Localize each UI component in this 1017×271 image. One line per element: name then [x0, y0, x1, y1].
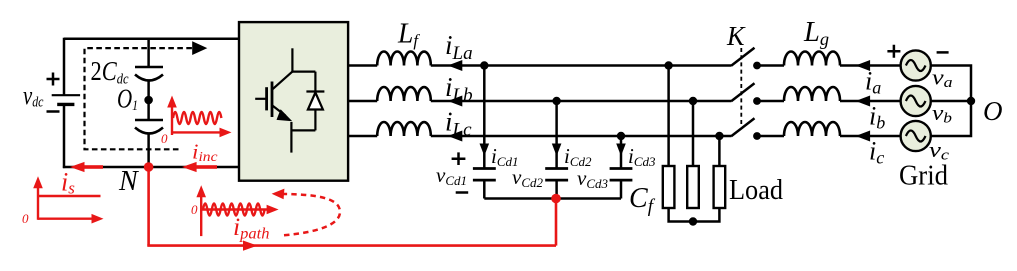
label source minus: [937, 51, 949, 54]
capacitor Cd1: [473, 169, 496, 181]
resistor R2: [687, 166, 699, 208]
wire: load bottom bus: [669, 208, 720, 222]
graph is dc level line: [38, 195, 101, 197]
wire: between split capacitors: [147, 81, 150, 121]
wire: DC bus top: [64, 38, 239, 41]
red arrow on bottom path: [243, 241, 258, 251]
inductor Lg phase b: [784, 87, 840, 101]
svg-text:Lg: Lg: [803, 17, 829, 49]
wire: capacitor bus: [484, 197, 621, 200]
wire: midpoint branch upper: [147, 38, 150, 67]
current arrow iCd1: [480, 144, 490, 157]
wire: capacitor branch 1: [483, 66, 486, 169]
label battery minus: [47, 110, 60, 113]
red current arrow on dc bottom right: [182, 162, 217, 172]
current arrow iCd2: [552, 144, 562, 157]
svg-text:K: K: [726, 21, 746, 51]
node N red: [144, 162, 154, 172]
svg-text:iLb: iLb: [445, 72, 473, 106]
dashed circulating-current loop: [85, 48, 194, 149]
red dashed return curve: [282, 194, 340, 235]
svg-text:iinc: iinc: [192, 140, 218, 166]
wire: branch 1 lower stub: [483, 180, 486, 198]
node load star point: [689, 217, 697, 225]
svg-text:iCd3: iCd3: [628, 144, 656, 169]
resistor R1: [663, 166, 675, 208]
svg-text:is: is: [61, 168, 75, 198]
wire: phase c switch to Lg: [757, 135, 784, 138]
inductor Lf phase c: [377, 122, 431, 136]
switch contact node b: [753, 97, 761, 105]
switch contact node a: [753, 62, 761, 70]
svg-text:Cf: Cf: [629, 183, 656, 217]
node phase a load tap: [664, 61, 672, 69]
red dashed curve arrowhead: [272, 189, 285, 200]
label vCd1 plus: [452, 152, 466, 165]
svg-text:Grid: Grid: [899, 161, 948, 192]
current arrow ia: [856, 60, 871, 71]
svg-text:vCd3: vCd3: [577, 166, 608, 191]
node bus red: [551, 194, 561, 204]
wire: load leg c: [718, 136, 721, 166]
svg-text:iLa: iLa: [445, 30, 473, 64]
node phase c branch3: [617, 132, 625, 140]
wire: below lower capacitor: [147, 134, 150, 168]
wire: phase c Lg to source: [840, 135, 901, 138]
svg-text:0: 0: [22, 211, 29, 226]
wire: phase c filter to switch: [431, 135, 731, 138]
svg-text:ia: ia: [865, 67, 881, 98]
current arrow ib: [856, 96, 871, 107]
capacitor Cd3: [610, 169, 633, 181]
wire: IGBT top rail: [292, 70, 315, 72]
capacitor 2Cdc lower: [135, 120, 163, 134]
wire: phase a Lg to source: [840, 64, 901, 67]
wire: branch 2 lower stub: [555, 180, 558, 198]
battery Vdc: [52, 95, 80, 104]
wire: DC left upper: [63, 38, 66, 95]
current arrow iLc: [448, 131, 463, 142]
wire: phase a filter to switch: [431, 64, 731, 67]
wire: IGBT bottom rail: [291, 129, 315, 131]
red current arrow on dc bottom left: [70, 162, 103, 172]
svg-text:iLc: iLc: [445, 107, 472, 141]
inverter U1: [239, 22, 348, 181]
current arrow iLa: [448, 60, 463, 71]
capacitor 2Cdc upper: [135, 67, 163, 81]
red wire N down: [147, 167, 150, 246]
svg-text:vCd1: vCd1: [436, 163, 467, 188]
graph is axes red: [38, 182, 96, 220]
wire: phase a inverter to filter: [348, 64, 377, 67]
wire: phase b Lg to source: [840, 100, 901, 103]
svg-text:0: 0: [161, 131, 168, 146]
source Va: [901, 50, 931, 80]
current arrow iLb: [448, 96, 463, 107]
inductor Lg phase a: [784, 52, 840, 66]
resistor R3: [714, 166, 726, 208]
wire: load leg a: [667, 66, 670, 167]
label battery plus: [47, 73, 60, 86]
transistor Q1 IGBT: [255, 48, 292, 152]
graph iinc axis arrowheads: [167, 96, 231, 138]
node phase b branch2: [552, 97, 560, 105]
inductor Lg phase c: [784, 122, 840, 136]
svg-text:Load: Load: [729, 175, 783, 206]
node phase b load tap: [689, 97, 697, 105]
switch K blade a: [731, 48, 755, 66]
svg-text:ipath: ipath: [233, 214, 270, 243]
svg-text:vCd2: vCd2: [512, 165, 543, 190]
switch K gang link dashed: [740, 48, 742, 126]
wire: load leg b: [692, 101, 695, 166]
red wire up to bus: [555, 199, 558, 246]
svg-text:vdc: vdc: [23, 81, 44, 111]
graph ipath axes red: [201, 192, 271, 236]
label vCd1 minus: [456, 191, 469, 194]
inductor Lf phase a: [377, 52, 431, 66]
current arrow iCd3: [616, 144, 626, 157]
capacitor Cd2: [545, 169, 568, 181]
node phase a branch1: [480, 61, 488, 69]
wire: phase b inverter to filter: [348, 100, 377, 103]
graph iinc ripple wave: [173, 112, 221, 124]
wire: capacitor branch 3: [620, 136, 623, 168]
wire: phase a switch to Lg: [757, 64, 784, 67]
wire: grid neutral bus: [931, 66, 971, 137]
current arrow ic: [856, 131, 871, 142]
svg-text:vb: vb: [932, 100, 953, 127]
switch K blade b: [731, 83, 755, 101]
node O: [967, 97, 975, 105]
svg-text:N: N: [118, 166, 139, 197]
svg-text:O: O: [983, 96, 1003, 126]
graph is axis arrowheads: [33, 176, 103, 223]
svg-text:0: 0: [191, 202, 198, 217]
wire: phase b switch to Lg: [757, 100, 784, 103]
svg-text:ib: ib: [869, 102, 885, 133]
label source plus: [887, 45, 900, 58]
red wire bottom across: [147, 244, 556, 247]
node O1: [144, 96, 153, 105]
inductor Lf phase b: [377, 87, 431, 101]
source Vb: [901, 86, 931, 116]
svg-text:O1: O1: [117, 84, 138, 115]
svg-text:Lf: Lf: [397, 19, 420, 51]
transistor Q1 emitter arrowhead: [277, 109, 293, 121]
node phase c load tap: [715, 132, 723, 140]
wire: DC bus bottom: [63, 166, 239, 169]
source Vc: [901, 121, 931, 151]
switch contact node c: [753, 132, 761, 140]
switch K blade c: [731, 118, 755, 136]
svg-text:ic: ic: [869, 137, 884, 168]
dashed loop arrowhead: [192, 41, 207, 55]
svg-text:va: va: [932, 65, 953, 92]
graph ipath axis arrowheads: [196, 185, 278, 214]
diode D1: [306, 72, 324, 131]
wire: branch 3 lower stub: [620, 180, 623, 198]
wire: capacitor branch 2: [555, 101, 558, 168]
wire: phase b filter to switch: [431, 100, 731, 103]
graph ipath ripple wave: [203, 204, 265, 216]
graph iinc axes red: [172, 102, 224, 135]
wire: DC left lower: [63, 104, 66, 168]
wire: phase c inverter to filter: [348, 135, 377, 138]
